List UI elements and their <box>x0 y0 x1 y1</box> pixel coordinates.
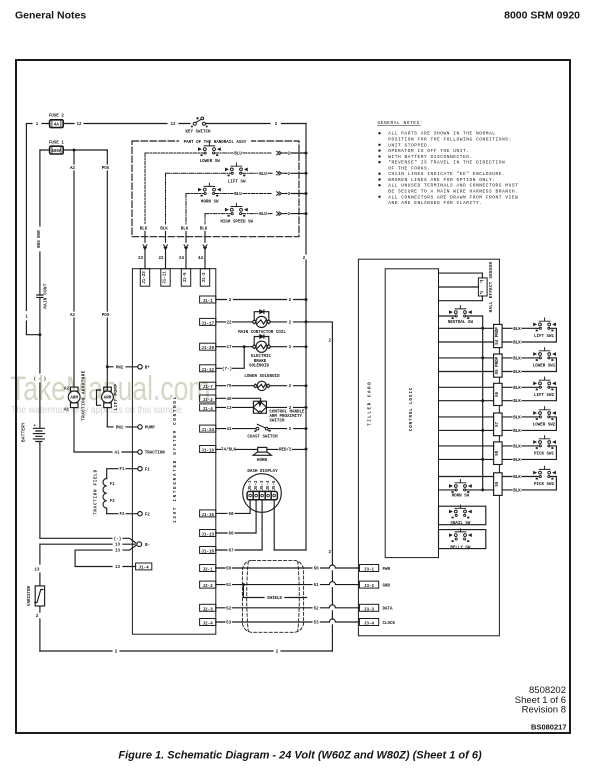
svg-text:HALL EFFECT SENSOR: HALL EFFECT SENSOR <box>490 262 494 313</box>
connector J1-11 <box>161 269 170 287</box>
svg-text:BLU: BLU <box>259 173 267 177</box>
svg-text:2: 2 <box>303 257 306 261</box>
battery BT1 <box>33 418 44 445</box>
connector arrow 44 <box>203 245 207 250</box>
svg-text:ALL UNUSED TERMINALS AND CONNE: ALL UNUSED TERMINALS AND CONNECTORS MUST <box>388 183 518 189</box>
node junction dot bus bar / wire 1 <box>38 333 41 336</box>
box control logic <box>385 269 438 558</box>
svg-text:J3-2: J3-2 <box>364 585 375 589</box>
connector J2-4 <box>200 619 216 627</box>
svg-text:12: 12 <box>170 123 176 127</box>
svg-text:79: 79 <box>226 385 232 389</box>
svg-text:CONTROL HANDLE: CONTROL HANDLE <box>269 410 305 414</box>
box SNAIL SW <box>439 506 486 525</box>
svg-text:BLK: BLK <box>181 228 189 232</box>
motor lift pump M2 <box>97 387 114 427</box>
switch COAST SWITCH <box>254 424 270 432</box>
svg-text:1: 1 <box>36 123 39 127</box>
svg-text:BLK: BLK <box>513 342 521 346</box>
svg-text:50: 50 <box>226 568 232 572</box>
terminal B+ <box>138 365 142 369</box>
svg-text:HORN: HORN <box>257 459 268 463</box>
general notes block <box>378 120 519 206</box>
svg-text:ARM: ARM <box>104 397 112 401</box>
wires row5 left <box>439 446 494 460</box>
svg-text:A2: A2 <box>70 314 76 318</box>
wires row6 right BLK <box>502 477 556 490</box>
wire 13 from J1-4 <box>216 406 254 408</box>
shield dashed outline <box>242 560 303 632</box>
svg-text:LIFT SW1: LIFT SW1 <box>534 335 555 339</box>
wire 67 display pin3 <box>216 500 262 550</box>
terminal F2 <box>138 512 142 516</box>
svg-text:J1-4: J1-4 <box>203 408 214 412</box>
svg-text:1297 INTEGRATED SYSTEM CONTROL: 1297 INTEGRATED SYSTEM CONTROL <box>174 395 178 523</box>
wire 51 <box>216 582 360 585</box>
svg-text:J5-2: J5-2 <box>255 480 259 491</box>
motor traction armature M1 <box>68 387 80 452</box>
node dot row4 <box>481 429 484 432</box>
footer part number block <box>515 685 566 716</box>
svg-text:8000 SRM 0920: 8000 SRM 0920 <box>504 10 580 22</box>
wire 17 from J1-20 <box>216 346 306 348</box>
node dot lower/bus <box>305 152 308 155</box>
wire LIFT SW left stub <box>166 172 232 174</box>
connector J1-4 left <box>136 563 152 571</box>
svg-text:2: 2 <box>288 173 291 177</box>
svg-text:2: 2 <box>36 615 39 619</box>
svg-text:57: 57 <box>496 421 500 427</box>
wires row4 right BLK <box>502 417 556 431</box>
svg-text:J3-3: J3-3 <box>364 608 375 612</box>
svg-text:LOWER SW2: LOWER SW2 <box>533 424 556 428</box>
horn LS1 <box>253 447 271 455</box>
svg-text:B+: B+ <box>145 367 151 371</box>
switch NEUTRAL SW <box>450 306 472 319</box>
svg-text:17: 17 <box>226 346 232 350</box>
svg-text:F2: F2 <box>110 500 116 504</box>
notes bullets <box>378 132 380 198</box>
box 1297 integrated system control U1 <box>132 269 215 635</box>
svg-text:J1-12: J1-12 <box>201 369 214 373</box>
connector J1-20 <box>200 343 216 351</box>
wires row1 right BLK <box>502 328 556 342</box>
svg-text:2: 2 <box>288 193 291 197</box>
node dot prox/bus <box>305 406 308 409</box>
svg-text:J1-3: J1-3 <box>203 272 207 283</box>
svg-text:A1: A1 <box>114 452 120 456</box>
wire horn sw <box>439 489 483 491</box>
ladder row 58 <box>494 442 503 465</box>
svg-text:HORN SW: HORN SW <box>201 201 219 205</box>
svg-text:52: 52 <box>314 607 320 611</box>
connector J1-4 <box>200 404 216 412</box>
svg-text:LOWER SW: LOWER SW <box>200 160 221 164</box>
svg-text:BROKEN LINES ARE FOR OPTION ON: BROKEN LINES ARE FOR OPTION ONLY. <box>388 177 495 183</box>
wire 2 varistor to bottom <box>39 606 41 651</box>
svg-text:BRAKE: BRAKE <box>254 360 267 364</box>
svg-text:A2: A2 <box>64 388 70 392</box>
wire 13 varistor branch to B- <box>40 543 135 545</box>
svg-text:2: 2 <box>289 346 292 350</box>
svg-text:400A: 400A <box>51 150 62 154</box>
wire 12 (fuse2 to key switch) <box>42 123 190 125</box>
node dot row1 <box>481 327 484 330</box>
wire 52 <box>216 605 360 608</box>
svg-text:52: 52 <box>226 607 232 611</box>
svg-text:HIGH SPEED SW: HIGH SPEED SW <box>220 221 253 225</box>
svg-text:BLK: BLK <box>513 489 521 493</box>
wires row2 left <box>439 358 494 372</box>
svg-text:BLK: BLK <box>513 357 521 361</box>
switch HORN SW tiller <box>450 480 472 493</box>
node dot brake junction <box>243 345 246 348</box>
svg-text:2: 2 <box>288 213 291 217</box>
svg-text:2: 2 <box>229 299 232 303</box>
svg-text:J3-4: J3-4 <box>364 623 375 627</box>
svg-text:J1-9: J1-9 <box>184 272 188 283</box>
wire 2 branch right <box>306 322 332 651</box>
svg-text:PICK SW2: PICK SW2 <box>534 483 555 487</box>
wire 22 from J1-17 <box>216 321 306 323</box>
svg-text:OPERATOR IS OFF THE UNIT.: OPERATOR IS OFF THE UNIT. <box>388 148 469 154</box>
inductor traction field L1 <box>103 479 107 514</box>
connector pins dash display <box>247 491 277 499</box>
switch SNAIL SW <box>450 505 472 518</box>
wire SHIELD stub <box>243 585 306 598</box>
fuse F1 <box>50 146 64 154</box>
wire bus to dash display <box>274 549 306 551</box>
svg-text:SWITCH: SWITCH <box>269 420 285 424</box>
svg-text:BLK: BLK <box>200 228 208 232</box>
connector arrow lift <box>277 172 286 175</box>
switch PICK SW1 <box>534 436 556 449</box>
wire fuse1 row <box>40 149 107 151</box>
wire LOWER SW left stub <box>145 152 204 154</box>
svg-text:TRACTION FIELD: TRACTION FIELD <box>95 469 99 515</box>
svg-text:13: 13 <box>115 550 121 554</box>
svg-text:J2-2: J2-2 <box>203 585 214 589</box>
connector arrow 22 <box>164 245 168 250</box>
switch LOWER SW1 <box>534 348 556 361</box>
wires row6 left <box>439 477 494 490</box>
terminal B- <box>137 542 142 547</box>
svg-text:RED/2: RED/2 <box>279 448 292 453</box>
connector J1-19 <box>200 446 216 454</box>
connector J2-1 <box>200 565 216 573</box>
svg-text:2: 2 <box>289 385 292 389</box>
svg-text:LIFT SW: LIFT SW <box>228 180 246 184</box>
terminal TRACTION <box>138 450 142 454</box>
wire BLU high speed <box>242 213 272 215</box>
wire F2 <box>107 513 138 515</box>
svg-text:UNIT STOPPED.: UNIT STOPPED. <box>388 142 430 148</box>
svg-text:BE SECURE TO A MAIN WIRE HARNE: BE SECURE TO A MAIN WIRE HARNESS BRANCH. <box>388 189 518 195</box>
svg-text:COAST SWITCH: COAST SWITCH <box>247 436 278 440</box>
svg-text:41: 41 <box>226 428 232 432</box>
wire 2 from J1-1 <box>216 299 306 301</box>
wire BLK column 23 <box>144 153 146 224</box>
node dot lift/bus <box>305 172 308 175</box>
connector J1-16 <box>200 547 216 555</box>
ladder row 56 <box>494 383 503 405</box>
wire display pin5 to bus <box>273 500 275 550</box>
svg-text:2: 2 <box>288 153 291 157</box>
svg-text:J1-17: J1-17 <box>201 322 214 326</box>
wire 2 lower <box>286 152 307 154</box>
svg-text:J1-2: J1-2 <box>203 399 214 403</box>
ladder row 55 PROP <box>494 354 503 377</box>
svg-text:59: 59 <box>496 481 500 487</box>
node dot row5 <box>481 458 484 461</box>
wire neutral sw <box>439 316 483 490</box>
svg-text:BLK: BLK <box>513 371 521 375</box>
svg-text:J1-16: J1-16 <box>201 551 214 555</box>
svg-text:WITH BATTERY DISCONNECTED.: WITH BATTERY DISCONNECTED. <box>388 154 473 160</box>
wire 13 to varistor <box>39 544 41 586</box>
wire battery negative to B- <box>40 538 136 543</box>
svg-text:J1-20: J1-20 <box>201 347 214 351</box>
svg-text:VARISTOR: VARISTOR <box>28 585 32 606</box>
switch HORN SW <box>199 183 221 196</box>
svg-text:TRACTION: TRACTION <box>145 452 166 456</box>
node dot horn/bus <box>305 448 308 451</box>
switch LIFT SW1 <box>534 318 556 331</box>
svg-text:BLK: BLK <box>513 416 521 420</box>
wire PN2 <box>107 366 137 368</box>
svg-text:55 PROP: 55 PROP <box>496 356 500 374</box>
wire 40 from J1-2 <box>216 398 261 401</box>
svg-text:ARM: ARM <box>70 397 78 401</box>
svg-text:NEUTRAL SW: NEUTRAL SW <box>448 321 474 325</box>
connector J2-3 <box>200 604 216 612</box>
svg-text:ALL PARTS ARE SHOWN IN THE NOR: ALL PARTS ARE SHOWN IN THE NORMAL <box>388 131 495 137</box>
svg-text:SOLENOID: SOLENOID <box>249 364 270 368</box>
svg-text:58: 58 <box>496 450 500 456</box>
connector J2-2 <box>200 581 216 589</box>
svg-text:CONTROL LOGIC: CONTROL LOGIC <box>410 387 414 431</box>
svg-text:DASH DISPLAY: DASH DISPLAY <box>247 470 278 474</box>
wire 2 bottom run <box>40 650 333 652</box>
wires row1 left <box>439 328 494 342</box>
switch LOWER SW <box>199 143 221 156</box>
connector J1-12 <box>200 365 216 373</box>
connector arrow 23 <box>143 245 147 250</box>
connector J3-1 <box>359 565 378 573</box>
svg-text:74/BLK: 74/BLK <box>221 448 237 453</box>
svg-text:J1-7: J1-7 <box>203 386 214 390</box>
svg-text:BLU: BLU <box>234 193 242 197</box>
wire (7-) from J1-12 <box>216 347 244 369</box>
connector arrow lower <box>277 151 286 154</box>
svg-text:SHIELD: SHIELD <box>267 597 283 601</box>
svg-text:LOWER SW1: LOWER SW1 <box>533 365 556 369</box>
svg-text:BLU: BLU <box>259 213 267 217</box>
svg-text:PUMP: PUMP <box>145 427 156 431</box>
svg-text:A2: A2 <box>70 167 76 171</box>
wire 74/BLK from J1-19 <box>216 448 306 450</box>
svg-text:LOWER SOLENOID: LOWER SOLENOID <box>244 375 280 379</box>
wire 13 loop to B- <box>75 546 136 567</box>
svg-text:22: 22 <box>158 257 164 261</box>
svg-text:F1: F1 <box>145 468 151 472</box>
svg-text:GND: GND <box>383 584 391 588</box>
svg-text:24: 24 <box>179 257 185 261</box>
wire BLU horn <box>215 193 272 195</box>
svg-text:BLU: BLU <box>234 153 242 157</box>
svg-text:13: 13 <box>115 544 121 548</box>
svg-text:2: 2 <box>289 428 292 432</box>
svg-text:MAIN CONT: MAIN CONT <box>45 283 49 309</box>
svg-text:2: 2 <box>275 123 278 127</box>
node dot horn/bus <box>305 192 308 195</box>
node junction dot PN2 <box>106 365 109 368</box>
svg-text:22: 22 <box>226 321 232 325</box>
svg-text:2: 2 <box>289 299 292 303</box>
node dot brake/bus <box>305 345 308 348</box>
svg-text:54 PROP: 54 PROP <box>496 327 500 345</box>
ladder row 57 <box>494 413 503 436</box>
svg-text:BUS BAR: BUS BAR <box>38 230 42 248</box>
box handrail assy (dashed) <box>132 141 299 237</box>
svg-text:BLK: BLK <box>513 328 521 332</box>
connector J1-1 <box>200 296 216 304</box>
connector J1-17 <box>200 318 216 326</box>
coil MAIN CONTACTOR COIL with diode <box>252 310 270 328</box>
wire 2 lift <box>286 172 307 174</box>
svg-text:J1-23: J1-23 <box>143 271 147 284</box>
svg-text:13: 13 <box>34 569 40 573</box>
wire 50 <box>216 565 360 568</box>
svg-text:J1-13: J1-13 <box>201 534 214 538</box>
connector J1-24 <box>200 425 216 433</box>
wire 1 (left drop from fuse 2) <box>26 124 40 335</box>
svg-text:13: 13 <box>115 566 121 570</box>
svg-text:J5-3: J5-3 <box>261 480 265 491</box>
svg-text:PART OF THE HANDRAIL ASSY: PART OF THE HANDRAIL ASSY <box>184 141 247 145</box>
node dot shield tap <box>242 583 245 586</box>
node dot J1-1/bus <box>305 298 308 301</box>
node junction dot A2 <box>73 149 76 152</box>
wire POS vertical <box>106 150 108 391</box>
svg-text:BLK: BLK <box>513 387 521 391</box>
svg-text:BLK: BLK <box>513 476 521 480</box>
svg-text:(7-): (7-) <box>222 367 232 372</box>
switch BELLY SW <box>450 529 472 542</box>
svg-text:44: 44 <box>198 257 204 261</box>
switch PICK SW2 <box>534 466 556 479</box>
svg-text:KEY SWITCH: KEY SWITCH <box>185 131 211 135</box>
node dot lower solenoid/bus <box>305 384 308 387</box>
svg-text:BATTERY: BATTERY <box>23 422 27 442</box>
svg-text:A1: A1 <box>64 409 70 413</box>
watermark TakeManual.com <box>10 370 210 416</box>
svg-text:F2: F2 <box>145 513 151 517</box>
svg-text:51: 51 <box>226 584 232 588</box>
svg-text:BLK: BLK <box>140 228 148 232</box>
svg-text:DATA: DATA <box>383 608 394 612</box>
svg-text:HORN SW: HORN SW <box>452 494 470 498</box>
svg-text:51: 51 <box>314 584 320 588</box>
svg-text:AND ARE ENLARGED FOR CLARITY.: AND ARE ENLARGED FOR CLARITY. <box>388 200 482 206</box>
wires row3 right BLK <box>502 387 556 400</box>
svg-text:Figure 1. Schematic Diagram -: Figure 1. Schematic Diagram - 24 Volt (W… <box>118 750 482 762</box>
svg-text:J3-1: J3-1 <box>364 569 375 573</box>
wire 2 high speed <box>286 213 307 215</box>
svg-text:F2: F2 <box>119 513 125 517</box>
wire HORN SW left stub <box>186 193 204 195</box>
svg-text:13: 13 <box>226 407 232 411</box>
node dot coil/bus <box>305 320 308 323</box>
svg-text:TRACTION ARMATURE: TRACTION ARMATURE <box>82 370 86 420</box>
switch LIFT SW2 <box>534 377 556 390</box>
connector J1-2 <box>200 395 216 403</box>
svg-text:BS080217: BS080217 <box>531 723 566 732</box>
wire BLU lift <box>242 172 272 174</box>
svg-text:J2-3: J2-3 <box>203 608 214 612</box>
svg-text:4A: 4A <box>54 124 60 128</box>
svg-text:56: 56 <box>496 391 500 397</box>
wires row3 left <box>439 387 494 400</box>
svg-text:J1-11: J1-11 <box>164 271 168 284</box>
wire 58 display pin1 <box>216 500 250 514</box>
svg-text:( - ): ( - ) <box>34 377 47 382</box>
svg-text:"REVERSE" IS TRAVEL IN THE DIR: "REVERSE" IS TRAVEL IN THE DIRECTION <box>388 160 505 166</box>
sensor HALL EFFECT <box>478 278 487 296</box>
svg-text:POS: POS <box>102 314 110 318</box>
svg-text:J5-4: J5-4 <box>267 480 271 491</box>
wire BLU lower <box>215 152 272 154</box>
wire 66 display pin2 <box>216 500 256 533</box>
switch HIGH SPEED SW <box>226 203 248 216</box>
svg-text:53: 53 <box>226 622 232 626</box>
svg-text:PWR: PWR <box>383 568 391 572</box>
contact MAIN CONT <box>37 295 43 297</box>
wire 2 (key switch to bus) <box>207 123 307 125</box>
terminal PUMP <box>138 425 142 429</box>
connector J1-7 <box>200 382 216 390</box>
svg-text:POS: POS <box>102 167 110 171</box>
wire F1 <box>107 469 138 479</box>
wire BLK column 24 <box>185 194 187 225</box>
svg-text:Revision 8: Revision 8 <box>522 705 566 716</box>
wires row2 right BLK <box>502 358 556 372</box>
svg-text:TILLER CARD: TILLER CARD <box>369 381 373 426</box>
wires row4 left <box>439 417 494 431</box>
notes text <box>388 131 518 206</box>
box tiller card U2 <box>358 259 499 636</box>
svg-text:PN2: PN2 <box>116 366 124 370</box>
switch LOWER SW2 <box>534 407 556 420</box>
svg-text:The watermark only appears on: The watermark only appears on this sampl… <box>11 404 182 416</box>
svg-text:58: 58 <box>228 513 234 517</box>
svg-text:ARM PROXIMITY: ARM PROXIMITY <box>269 415 302 419</box>
svg-text:J1-24: J1-24 <box>201 429 214 433</box>
svg-text:BLK: BLK <box>160 228 168 232</box>
key switch S1 <box>191 117 208 127</box>
svg-text:BELLY SW: BELLY SW <box>450 546 471 550</box>
node dot row2 <box>481 356 484 359</box>
svg-text:23: 23 <box>138 257 144 261</box>
svg-text:J1-1: J1-1 <box>203 300 214 304</box>
connector J3-2 <box>359 581 378 589</box>
svg-text:BLK: BLK <box>513 400 521 404</box>
wire 41 from J1-24 <box>216 428 306 430</box>
svg-text:ALL CONNECTORS ARE DRAWN FROM: ALL CONNECTORS ARE DRAWN FROM FRONT VIEW <box>388 194 518 200</box>
wire HIGH SPEED left stub <box>205 213 231 215</box>
svg-text:BLK: BLK <box>513 430 521 434</box>
wire 53 <box>216 619 360 622</box>
